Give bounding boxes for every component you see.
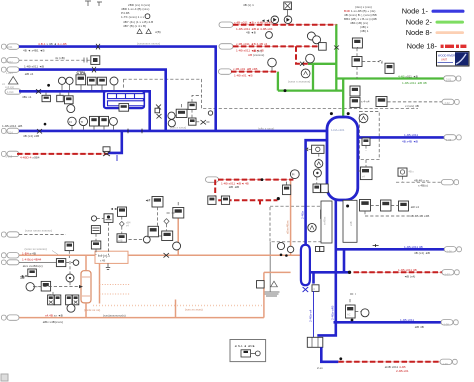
svg-text:1-08: 1-08 bbox=[444, 323, 450, 327]
svg-text:4B (x) 1: 4B (x) 1 bbox=[243, 3, 254, 7]
node flag R4 bbox=[206, 177, 219, 182]
dot on green header bbox=[284, 89, 287, 92]
wire blue H249 to right flag bbox=[336, 248, 444, 251]
svg-text:CTRL: CTRL bbox=[77, 71, 87, 75]
wire dashed signal D5 to right flag bbox=[396, 176, 441, 182]
svg-text:◄◄: ◄◄ bbox=[110, 207, 117, 211]
valve on H_C bbox=[37, 129, 42, 134]
dot above H_C bbox=[44, 123, 47, 126]
svg-text:◄Bx x4B(xxxx): ◄Bx x4B(xxxx) bbox=[42, 320, 63, 324]
orange circle top of riser bbox=[290, 170, 299, 179]
condenser circle upper bbox=[66, 274, 74, 282]
svg-text:Node 18-: Node 18- bbox=[407, 42, 438, 51]
svg-text:Node 2-: Node 2- bbox=[406, 17, 433, 26]
ground symbol bbox=[264, 292, 280, 296]
top-left text cluster bbox=[121, 3, 161, 34]
condenser box mid bbox=[41, 281, 50, 291]
dots on O1 line bbox=[280, 254, 283, 257]
wire blue V_A drop bbox=[214, 47, 217, 132]
svg-text:1-4B-x011 ◄B 4B: 1-4B-x011 ◄B 4B bbox=[402, 81, 427, 85]
dashed inner marks of D7 box bbox=[362, 138, 370, 151]
svg-text:1-4B-x011: 1-4B-x011 bbox=[404, 133, 418, 137]
svg-text:x (xxx) 4B: x (xxx) 4B bbox=[405, 104, 419, 108]
node flag R1 bbox=[219, 22, 233, 27]
instrument circle 3 above H_C bbox=[109, 117, 117, 129]
pump circles pair top bbox=[307, 32, 320, 44]
wire blue thin bypass bbox=[313, 291, 315, 337]
svg-text:4BY (B) (x 4 x B): 4BY (B) (x 4 x B) bbox=[123, 24, 146, 28]
level bridle box right of column bbox=[358, 160, 372, 180]
valve tick on H_B bbox=[92, 67, 96, 73]
svg-text:2-4Bx-x4B: 2-4Bx-x4B bbox=[330, 306, 334, 320]
stem from relief box bbox=[287, 10, 289, 16]
box left lower cluster bbox=[28, 269, 37, 277]
svg-text:(xxxx x xxxxxxx): (xxxx x xxxxxxx) bbox=[288, 80, 310, 84]
exchanger E-101 orange shell bbox=[81, 271, 91, 303]
top-right data block bbox=[344, 5, 377, 33]
wire red R1 bbox=[233, 24, 336, 26]
svg-text:1-4B-x011: 1-4B-x011 bbox=[400, 318, 414, 322]
sample box below R4 bbox=[283, 182, 291, 195]
node flag condenser return bbox=[2, 232, 7, 237]
svg-text:1-014: 1-014 bbox=[6, 130, 13, 134]
bottom analyzer circle in dashed box bbox=[308, 223, 316, 231]
box right mid green bbox=[385, 63, 394, 73]
valves beside V_B bbox=[155, 105, 162, 119]
node flag D2 right bbox=[442, 99, 454, 104]
wire orange drop from formula box bbox=[99, 264, 101, 304]
node flag D1 bbox=[2, 58, 7, 63]
wire red R4 drop and run bbox=[215, 180, 277, 201]
dot above H322 bbox=[351, 319, 354, 322]
wire dashed signal D2 to right flag bbox=[387, 101, 442, 103]
instrument boxes below H_D bbox=[42, 93, 63, 102]
instrument circle above H_D bbox=[110, 77, 118, 90]
wire green branch y78 to right flag bbox=[336, 77, 443, 79]
mid-left diamond bbox=[119, 221, 124, 226]
wire red R5 bbox=[17, 153, 108, 155]
mid-left cluster: box with dot bbox=[104, 214, 113, 223]
wire dashed boundary D3 bbox=[123, 79, 418, 109]
svg-text:x4B: x4B bbox=[118, 238, 123, 242]
svg-text:Node 1-: Node 1- bbox=[402, 7, 429, 16]
tiny symbol below formula box bbox=[106, 263, 110, 269]
box row right of column: box C bbox=[399, 201, 409, 211]
tiny box pair near drum top bbox=[316, 247, 324, 252]
condenser box pair 2 bbox=[66, 295, 79, 305]
wire blue drum outlet H272 bbox=[310, 271, 349, 274]
wire orange stub 1 bbox=[100, 284, 131, 286]
condenser circle bottom bbox=[67, 304, 75, 312]
valve on green jog bbox=[300, 62, 304, 66]
svg-text:◄B ◄B: ◄B ◄B bbox=[228, 185, 239, 189]
svg-text:x 4-x4: x 4-x4 bbox=[361, 99, 370, 103]
box on D1 bbox=[91, 56, 100, 65]
svg-text:2-4Bx: 2-4Bx bbox=[300, 210, 304, 219]
node flag B6 right bbox=[444, 247, 456, 252]
svg-text:4B x: 4B x bbox=[409, 170, 415, 174]
svg-text:1-DA-x101: 1-DA-x101 bbox=[331, 128, 345, 132]
svg-text:(xxx)xxxxxxxx(x): (xxx)xxxxxxxx(x) bbox=[103, 314, 126, 318]
wire red R3 bbox=[231, 71, 278, 73]
middle cluster: control valve bbox=[201, 120, 207, 124]
box above condenser cluster bbox=[65, 242, 74, 258]
svg-text:x 4B-x011 ◄B x 4-4B-x4 4B: x 4B-x011 ◄B x 4-4B-x4 4B bbox=[234, 20, 272, 24]
control panel inner cell row 1 bbox=[108, 94, 145, 99]
svg-text:UNIT: UNIT bbox=[441, 58, 447, 62]
circle on riser above O1 bbox=[173, 242, 181, 250]
mid-left box bottom bbox=[91, 241, 100, 249]
orange riser from sample box bbox=[177, 219, 179, 256]
instrument circle at column top bbox=[359, 114, 368, 123]
instruments above H_D second pair bbox=[76, 75, 106, 91]
node flag O1 bbox=[2, 253, 7, 258]
box top row mid cluster bbox=[145, 197, 163, 208]
wire blue overhead line H_E to right flag bbox=[358, 136, 444, 139]
legend Node 8 sample bbox=[436, 31, 465, 34]
bottom analyzer boxes right bbox=[321, 210, 330, 218]
CTRL lower box bbox=[119, 104, 129, 112]
svg-text:Node 8-: Node 8- bbox=[406, 28, 433, 37]
svg-text:2-02: 2-02 bbox=[445, 101, 451, 105]
dot in exchanger 2 bbox=[346, 205, 349, 208]
svg-text:(xxxx xxxxx xxxxxx): (xxxx xxxxx xxxxxx) bbox=[25, 228, 52, 232]
middle cluster: box FC wide bbox=[176, 109, 187, 117]
red text block mid bbox=[248, 49, 264, 57]
company logo bbox=[437, 52, 470, 67]
middle cluster: analyzer circle 2 bbox=[168, 120, 175, 127]
node flag B2 bbox=[2, 67, 7, 72]
wire thin signal from flag O1b bbox=[19, 261, 56, 263]
svg-text:4B (x4) ◄B: 4B (x4) ◄B bbox=[414, 251, 430, 255]
svg-text:◄◄: ◄◄ bbox=[21, 274, 28, 278]
wire green header y90.6 bbox=[278, 89, 343, 91]
wire blue H_D bbox=[19, 90, 151, 93]
svg-text:4B (x4) x4B: 4B (x4) x4B bbox=[23, 134, 39, 138]
dashes linking box row bbox=[365, 206, 410, 217]
node flag B1 bbox=[2, 44, 7, 49]
svg-text:1-05: 1-05 bbox=[446, 138, 452, 142]
box row right of column: box B bbox=[381, 200, 392, 211]
mid-left cluster: small circle left bbox=[91, 216, 104, 221]
top-center relief valve box bbox=[284, 2, 292, 10]
node flag B5 right bbox=[444, 135, 456, 140]
valve under drum bbox=[303, 287, 309, 292]
svg-text:(xxx xx xxxx): (xxx xx xxxx) bbox=[185, 308, 203, 312]
wire green vertical x278 from red node bbox=[277, 72, 279, 91]
svg-text:2-4Bx-x4: 2-4Bx-x4 bbox=[309, 309, 313, 322]
AC circle bbox=[361, 309, 369, 317]
svg-text:2-4B-x01: 2-4B-x01 bbox=[396, 369, 409, 373]
dashed box around bottom analyzers bbox=[270, 206, 330, 242]
top-center rotameter circle 1 bbox=[271, 16, 279, 24]
node flag green right bbox=[444, 76, 456, 81]
AC unit box bbox=[346, 305, 362, 318]
svg-text:4B ◄B: 4B ◄B bbox=[246, 31, 256, 35]
svg-text:1-015: 1-015 bbox=[6, 154, 13, 158]
node flag R2 bbox=[219, 44, 233, 49]
svg-text:xBxx4Bxx: xBxx4Bxx bbox=[286, 220, 290, 234]
small box on red R2 end bbox=[319, 43, 327, 51]
node flag O1b bbox=[2, 260, 7, 265]
wire dashed signal D1 bbox=[19, 59, 91, 61]
wire blue reboiler elbow bbox=[306, 140, 328, 246]
column side circle LG bbox=[315, 153, 323, 167]
wire orange exchanger top stub bbox=[85, 255, 87, 270]
svg-text:x4B: x4B bbox=[349, 221, 353, 226]
junction dot on H_D bbox=[47, 84, 50, 87]
svg-text:AC: AC bbox=[347, 313, 351, 317]
mid-left box TK bbox=[91, 226, 100, 234]
svg-text:1-06: 1-06 bbox=[447, 249, 453, 253]
relief triangle bbox=[9, 77, 19, 85]
svg-text:(xx4x xx xx): (xx4x xx xx) bbox=[84, 308, 100, 312]
column side instruments: box with circle bbox=[306, 145, 324, 153]
svg-text:1-0x4: 1-0x4 bbox=[7, 90, 14, 94]
wire green jog y63.8 bbox=[308, 63, 336, 65]
tall exchanger rect 2 bbox=[343, 200, 357, 242]
svg-text:◄B x4: ◄B x4 bbox=[24, 72, 34, 76]
box row right of column: box A bbox=[360, 200, 371, 212]
instruments above H_D: circle pair bbox=[58, 77, 73, 90]
svg-text:1-4 B(x)-4B44: 1-4 B(x)-4B44 bbox=[22, 257, 42, 261]
right green branch boxes: box 1 bbox=[352, 38, 362, 48]
small diamond mid cluster bbox=[164, 219, 169, 224]
marks on H249 left bbox=[373, 244, 379, 247]
svg-text:x 4B(x): x 4B(x) bbox=[418, 184, 428, 188]
arrowhead into exchanger bbox=[79, 285, 83, 288]
AC top dashes bbox=[350, 294, 356, 305]
right green branch box 2 bbox=[352, 48, 382, 79]
wire red R6 from drum to right flag bbox=[354, 271, 443, 273]
middle cluster: small circle right bbox=[208, 111, 212, 115]
condenser circle instrument bbox=[26, 283, 41, 291]
small box above ground bbox=[257, 281, 278, 288]
svg-text:◄B 4B: ◄B 4B bbox=[414, 325, 424, 329]
wire blue V_D drop bbox=[148, 91, 151, 132]
middle cluster dashes bbox=[182, 96, 211, 123]
orange formula annotation box on O1 bbox=[95, 251, 128, 263]
top edge tick marks bbox=[85, 1, 102, 6]
valve on O1 bbox=[164, 253, 170, 258]
wire red R4 bbox=[218, 179, 293, 181]
wire green main riser bbox=[335, 24, 337, 91]
dot on red R4 bbox=[261, 178, 264, 181]
svg-text:x(B): x(B) bbox=[155, 30, 161, 34]
wire green column inlet drop bbox=[342, 79, 344, 118]
mid-left circle right bbox=[129, 236, 151, 243]
wire blue H_A bbox=[19, 45, 217, 48]
svg-text:AB (xxxxxx): AB (xxxxxx) bbox=[248, 53, 264, 57]
wire blue V_C drop to red node bbox=[108, 131, 122, 153]
svg-text:4-4BD-4 x0B4: 4-4BD-4 x0B4 bbox=[20, 156, 40, 160]
control panel inner cell row 2 bbox=[108, 101, 145, 106]
wire dashed from return flag bbox=[19, 233, 66, 235]
wire orange ticked line bbox=[93, 305, 263, 307]
node flag B3 bbox=[5, 89, 21, 94]
boxes above red R4 run bbox=[208, 196, 230, 204]
tall exchanger rect 1 bbox=[321, 201, 332, 243]
svg-text:1-4B-x011 4B: 1-4B-x011 4B bbox=[398, 268, 417, 272]
valve on R5 bbox=[103, 147, 110, 156]
box below H_D with circle bbox=[65, 92, 75, 112]
corner resize icon bbox=[1, 374, 8, 381]
svg-text:2-01: 2-01 bbox=[446, 78, 452, 82]
pump P-1 box bbox=[307, 337, 323, 347]
middle cluster: box LI bbox=[188, 102, 196, 109]
svg-text:(xxxxxxxx xxxxx): (xxxxxxxx xxxxx) bbox=[137, 41, 160, 45]
svg-text:xx4Bxx: xx4Bxx bbox=[323, 216, 327, 225]
svg-text:◄# x4: ◄# x4 bbox=[410, 205, 419, 209]
svg-text:4Bx x1: 4Bx x1 bbox=[22, 95, 32, 99]
wire blue drum bottom stub bbox=[312, 272, 315, 283]
circle right of box bbox=[66, 260, 79, 266]
column C-1 vessel bbox=[327, 117, 358, 200]
wire red R2 drop bbox=[296, 46, 308, 63]
legend Node 1 sample bbox=[432, 10, 465, 13]
wire red R2 bbox=[233, 45, 318, 47]
svg-text:x4.4B xx ◄B: x4.4B xx ◄B bbox=[45, 314, 63, 318]
svg-text:PI: PI bbox=[292, 173, 295, 177]
svg-text:1-4B-x011 4B: 1-4B-x011 4B bbox=[404, 245, 423, 249]
vessel top junction dots bbox=[330, 112, 333, 115]
instrument circle 2 above H_C bbox=[79, 117, 87, 129]
box lower right of green bbox=[376, 97, 387, 107]
svg-text:1-013: 1-013 bbox=[6, 71, 13, 75]
right green branch box 4 bbox=[350, 97, 360, 107]
node flag R5 left bbox=[2, 151, 7, 156]
svg-text:4B.4B x xx: 4B.4B x xx bbox=[414, 178, 429, 182]
column side circle 2 bbox=[313, 168, 321, 177]
svg-text:TI: TI bbox=[81, 120, 84, 124]
svg-text:WOOD RIVER: WOOD RIVER bbox=[438, 54, 455, 58]
junction node dot y272 bbox=[348, 271, 351, 274]
top-center rotameter circle 2 bbox=[284, 16, 292, 24]
valve on H_D bbox=[36, 89, 41, 94]
node flag R6 right bbox=[442, 270, 454, 275]
wire blue vent stub bbox=[116, 155, 118, 161]
flag for D5 bbox=[441, 180, 453, 185]
node flag R7 right bbox=[440, 359, 452, 364]
wire blue pump discharge bbox=[321, 347, 338, 362]
svg-text:1-4B-x014 ◄B: 1-4B-x014 ◄B bbox=[2, 124, 22, 128]
svg-text:1-4B-x011 ◄B: 1-4B-x011 ◄B bbox=[24, 65, 44, 69]
wire blue V_B drop bbox=[164, 70, 167, 132]
wire orange O2 return header bbox=[17, 317, 264, 319]
control panel CTRL blue box bbox=[104, 91, 144, 108]
valve tick on H_A bbox=[96, 44, 100, 50]
junction node dot red R4 bbox=[277, 197, 280, 200]
wire orange down leg bbox=[263, 272, 265, 317]
svg-text:◄#: ◄# bbox=[145, 198, 150, 202]
condenser text above O1 bbox=[25, 247, 59, 255]
tick before D1 box bbox=[84, 58, 87, 63]
dashed box around level instruments bbox=[360, 112, 380, 160]
svg-text:4-4B x011 ◄B: 4-4B x011 ◄B bbox=[398, 74, 418, 78]
drum stub box bbox=[312, 285, 319, 292]
svg-text:1-09: 1-09 bbox=[443, 362, 449, 366]
column side box pair bottom bbox=[313, 177, 328, 193]
node flag B7 right bbox=[441, 320, 453, 325]
circle pair near green jog bbox=[301, 54, 314, 78]
svg-text:4x (xB): 4x (xB) bbox=[55, 56, 65, 60]
svg-text:x 4B: x 4B bbox=[100, 258, 105, 262]
sample box atop riser bbox=[173, 208, 184, 219]
wire orange exchanger bottom stub bbox=[85, 303, 87, 318]
box right of D5 bbox=[398, 168, 414, 176]
node flag B4 bbox=[2, 128, 7, 133]
mid-left cluster dashes bbox=[96, 216, 122, 255]
instrument circle above R3 bbox=[268, 58, 277, 71]
svg-text:◄B (x4): ◄B (x4) bbox=[404, 275, 415, 279]
wire orange O1 feed header bbox=[19, 254, 301, 256]
instrument boxes above H_C bbox=[90, 116, 109, 129]
wire blue column bottoms main drop bbox=[317, 200, 336, 335]
svg-text:(xxxx xx xxxxxx): (xxxx xx xxxxxx) bbox=[25, 247, 47, 251]
svg-text:1-4B-x01 ◄B: 1-4B-x01 ◄B bbox=[234, 73, 253, 77]
wire orange riser mid bbox=[175, 300, 177, 318]
wire green parallel vertical x313 bbox=[312, 64, 314, 91]
wire blue V344 bbox=[343, 249, 346, 272]
instrument circles above H_C bbox=[68, 117, 76, 129]
drum D-1 small blue vessel bbox=[301, 245, 310, 285]
tick marks on H_C mid bbox=[128, 129, 142, 134]
svg-text:4B 4B.4B x4B: 4B 4B.4B x4B bbox=[410, 214, 429, 218]
wire orange riser to condenser circle bbox=[290, 179, 292, 256]
svg-text:(x4x x xxxx): (x4x x xxxx) bbox=[258, 127, 274, 131]
drawing note box bbox=[230, 340, 266, 362]
wire gray drain line bbox=[269, 242, 271, 292]
mid cluster dashes2 bbox=[158, 202, 179, 236]
wire blue H_C main header bbox=[19, 130, 328, 133]
legend Node 2 sample bbox=[436, 21, 465, 24]
small marks on green V bbox=[334, 46, 339, 50]
dot on R7 start bbox=[339, 357, 342, 360]
svg-text:1-B4-x-4B: 1-B4-x-4B bbox=[22, 252, 36, 256]
circle between R1 R2 bbox=[266, 32, 273, 39]
wire blue H_B bbox=[19, 68, 167, 71]
svg-text:1-07: 1-07 bbox=[445, 273, 451, 277]
box mid cluster c2 bbox=[162, 231, 173, 241]
svg-text:FI: FI bbox=[69, 120, 72, 124]
wire red R7 bottom to right flag bbox=[338, 361, 440, 363]
legend Node 18 sample bbox=[441, 45, 467, 48]
wire dashed stub to panel bbox=[122, 79, 124, 88]
middle cluster: analyzer circle bbox=[168, 112, 176, 119]
box on signal line bbox=[56, 259, 65, 267]
svg-text:4B ◄ x4B1 ◄B: 4B ◄ x4B1 ◄B bbox=[23, 49, 45, 53]
svg-text:1-012: 1-012 bbox=[6, 60, 13, 64]
svg-text:4-B-1 x 4B ◄ 4-x-4B: 4-B-1 x 4B ◄ 4-x-4B bbox=[38, 42, 67, 46]
bottom analyzer circles near orange bbox=[277, 242, 293, 252]
svg-text:◄xx xxxB4x(x): ◄xx xxxB4x(x) bbox=[22, 264, 43, 268]
svg-text:4B x4B ◄B: 4B x4B ◄B bbox=[402, 140, 418, 144]
svg-text:x 4B-x011 ◄B 4-4B x4: x 4B-x011 ◄B 4-4B x4 bbox=[236, 42, 267, 46]
svg-text:x 4B-x01 ◄B x4B: x 4B-x01 ◄B x4B bbox=[233, 67, 257, 71]
node flag R3 bbox=[219, 69, 232, 74]
middle cluster: box lower bbox=[189, 118, 196, 125]
condenser cluster dashes bbox=[33, 261, 78, 305]
svg-text:2-xx: 2-xx bbox=[317, 366, 323, 370]
condenser box pair 1 bbox=[48, 295, 61, 305]
svg-text:◄ N-1 ◄ ◄N►: ◄ N-1 ◄ ◄N► bbox=[234, 344, 255, 348]
mid-left cluster: box top-right bbox=[118, 207, 127, 216]
wire orange stub 2 bbox=[100, 293, 131, 295]
mid-left box lower mid bbox=[117, 234, 126, 243]
wire orange jog horizontal bbox=[264, 271, 291, 273]
wire blue H322 to right flag bbox=[334, 321, 442, 324]
svg-text:xx4 x(x): xx4 x(x) bbox=[5, 85, 14, 89]
